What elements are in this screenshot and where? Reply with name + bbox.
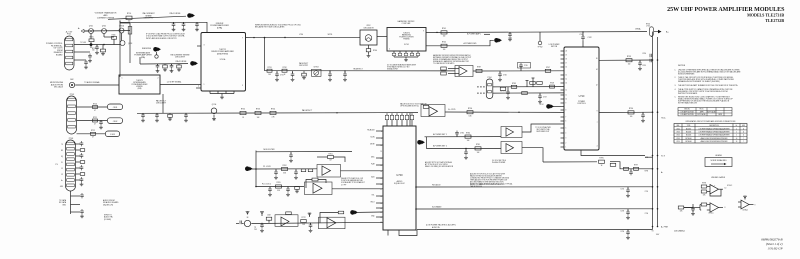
svg-text:A+: A+ <box>661 171 663 174</box>
svg-text:2 V PP: 2 V PP <box>341 184 347 186</box>
junction <box>518 112 519 113</box>
wire: filt audio long line <box>416 186 653 188</box>
svg-text:W702: W702 <box>367 25 371 27</box>
IPA hybrid block <box>119 75 160 94</box>
junction dots bottom <box>415 186 417 188</box>
svg-text:R732: R732 <box>282 67 286 69</box>
feedback R767 <box>312 178 318 181</box>
svg-text:5: 5 <box>389 49 390 51</box>
op-amp U703-b <box>313 183 322 193</box>
wire: squelch long line <box>416 208 653 210</box>
svg-text:PA DETECT: PA DETECT <box>302 109 313 112</box>
svg-text:3/31/82-UP: 3/31/82-UP <box>768 246 783 250</box>
dashes into connector <box>477 86 479 88</box>
svg-text:5.6K: 5.6K <box>468 116 471 118</box>
capacitor C747 <box>539 93 541 95</box>
harmonic filter block <box>387 28 426 52</box>
svg-text:RX: RX <box>61 150 63 152</box>
svg-text:.01: .01 <box>182 30 184 32</box>
wire fwd <box>426 45 484 47</box>
op-amp U702-a box <box>421 105 445 117</box>
svg-text:TX A+: TX A+ <box>661 116 666 119</box>
resistor R761 feedback <box>328 156 334 159</box>
svg-text:11: 11 <box>380 151 382 153</box>
off-sheet arrow RX audio <box>350 210 355 215</box>
svg-text:5: 5 <box>242 85 243 87</box>
svg-text:R720: R720 <box>93 103 97 105</box>
svg-text:C747: C747 <box>543 97 547 99</box>
svg-text:C746: C746 <box>503 75 507 77</box>
svg-text:16: 16 <box>596 58 598 60</box>
feedback loop wire <box>317 156 328 158</box>
capacitor C791 <box>642 112 644 114</box>
resistor R705 <box>89 39 94 42</box>
svg-text:C703: C703 <box>620 211 624 213</box>
resistor R799 <box>701 190 707 193</box>
svg-text:F2: F2 <box>61 174 63 176</box>
box R790 <box>522 92 528 95</box>
resistor R766 <box>295 187 300 190</box>
svg-text:1K: 1K <box>242 117 244 119</box>
speaker source circle <box>244 220 250 226</box>
ground C729 <box>81 215 83 217</box>
svg-text:R9 25: R9 25 <box>700 109 704 111</box>
capacitor C763 <box>269 187 271 189</box>
capacitor C702 stub <box>627 187 629 189</box>
resistor R787 <box>476 69 482 72</box>
svg-text:1-3 W RF SIGNAL: 1-3 W RF SIGNAL <box>167 81 182 84</box>
wire: A POWER SET 1 <box>425 136 502 138</box>
svg-text:R722: R722 <box>91 130 95 132</box>
svg-text:R793: R793 <box>627 56 631 58</box>
svg-text:P702: P702 <box>70 94 74 96</box>
resistor R785 <box>441 67 447 70</box>
svg-text:GND: GND <box>742 125 745 127</box>
svg-text:21: 21 <box>380 212 382 214</box>
capacitor C703 stub <box>627 209 629 211</box>
resistor R797 <box>634 167 639 170</box>
capacitor C720 <box>100 121 102 123</box>
resistor R796 <box>624 167 629 170</box>
svg-text:CIRCUITRY: CIRCUITRY <box>156 103 167 105</box>
svg-text:(DPA) HYBRID: (DPA) HYBRID <box>217 52 229 55</box>
wire from connector y93 <box>493 92 564 94</box>
capacitor C780 <box>456 135 458 137</box>
resistor R716 <box>177 65 182 68</box>
svg-text:R754: R754 <box>271 109 275 111</box>
microphone jack J702 <box>69 82 74 87</box>
svg-text:CIRCUITRY: CIRCUITRY <box>143 18 154 20</box>
svg-text:R748: R748 <box>550 83 554 85</box>
resistor R720 <box>93 106 98 109</box>
svg-text:C700: C700 <box>642 53 646 55</box>
bus wire A+ right <box>657 37 659 227</box>
wire: IPA bottom to PA detect <box>162 94 164 113</box>
resistor R731 <box>267 69 272 72</box>
resistor R765 <box>276 185 282 188</box>
op-amp U707 <box>459 67 467 76</box>
svg-text:10K: 10K <box>213 120 216 122</box>
wires into U707 <box>448 68 459 70</box>
svg-text:R789: R789 <box>512 83 516 85</box>
resistor R793 <box>626 59 632 62</box>
svg-text:SQUELCH IC: SQUELCH IC <box>394 183 406 185</box>
diode CR702 <box>610 163 616 166</box>
svg-text:C780: C780 <box>460 133 464 135</box>
wire: PL lock 2 line <box>256 185 304 187</box>
svg-text:JMPR: JMPR <box>700 111 704 113</box>
resistor R721 <box>93 119 98 122</box>
svg-text:JMPR: JMPR <box>718 114 722 116</box>
svg-text:U704: U704 <box>676 135 680 137</box>
svg-text:SET RB: SET RB <box>551 46 558 48</box>
resistor R706 <box>112 36 117 39</box>
op-amp U708 <box>741 200 749 209</box>
capacitor C792 <box>630 169 632 171</box>
svg-text:(DPA): (DPA) <box>217 27 223 30</box>
test point TP701 <box>155 55 158 58</box>
svg-text:1K: 1K <box>601 165 603 167</box>
svg-text:MC3403: MC3403 <box>686 135 691 137</box>
svg-text:33K: 33K <box>283 173 286 175</box>
wire IC top to opamp <box>409 113 411 126</box>
svg-text:68P81082E76-B: 68P81082E76-B <box>761 237 782 241</box>
svg-text:47: 47 <box>92 137 94 139</box>
svg-text:IN MICROHENRIES: IN MICROHENRIES <box>678 74 695 76</box>
junction dots on A+ line <box>436 32 437 33</box>
off-sheet arrow A POWER <box>494 38 499 43</box>
svg-text:B+ CNTL: B+ CNTL <box>448 109 455 111</box>
wire: sense vertical <box>129 23 131 63</box>
wire: A POWER SET 2 <box>427 147 502 149</box>
svg-text:R794: R794 <box>629 108 633 110</box>
svg-text:47: 47 <box>94 123 96 125</box>
capacitor C790 <box>639 60 641 62</box>
op-amp U705 box <box>420 103 422 105</box>
capacitor C753 <box>185 113 187 115</box>
off-sheet arrow PL LOCK input <box>245 166 250 171</box>
svg-text:C744: C744 <box>508 38 512 40</box>
resistor R762 <box>282 167 288 170</box>
resistor R794 <box>628 111 634 114</box>
svg-text:MIC JACK: MIC JACK <box>54 86 64 89</box>
svg-text:CIRCUITRY: CIRCUITRY <box>175 57 186 59</box>
PA control hybrid block U710 <box>564 47 599 150</box>
svg-text:IPA 1 DRIVE: IPA 1 DRIVE <box>170 12 181 15</box>
wire from connector to limiter <box>74 44 95 46</box>
capacitor C733 <box>329 71 331 73</box>
svg-text:U701 A: U701 A <box>220 58 226 61</box>
svg-text:100K: 100K <box>267 215 271 217</box>
resistor R772 <box>301 220 307 223</box>
diode CR704 <box>119 28 124 33</box>
svg-text:100: 100 <box>92 50 95 52</box>
svg-text:.01: .01 <box>196 30 198 32</box>
wire: PL lock line <box>252 168 317 170</box>
wire blob to IC <box>358 211 384 213</box>
junction <box>329 70 330 71</box>
svg-text:1: 1 <box>122 78 123 80</box>
svg-text:2: 2 <box>158 78 159 80</box>
box note above <box>518 63 531 69</box>
svg-text:3: 3 <box>204 45 205 47</box>
power stub for U708 <box>744 196 746 200</box>
svg-text:J 801: J 801 <box>113 107 118 109</box>
svg-text:MUTE: MUTE <box>370 143 374 145</box>
T stub 1 <box>526 81 528 87</box>
svg-text:J 802: J 802 <box>113 121 118 123</box>
svg-text:U703: U703 <box>676 132 680 134</box>
svg-text:TP: TP <box>254 227 256 229</box>
capacitor C761 <box>275 169 277 171</box>
junction <box>465 148 467 150</box>
svg-text:FL701: FL701 <box>404 44 409 46</box>
wire: current sense line to IPA 1 DRIVE <box>108 16 186 19</box>
capacitor C741 <box>509 32 511 34</box>
svg-text:R752: R752 <box>241 109 245 111</box>
wire: IPA 2 drive line <box>140 63 188 65</box>
capacitor C716 <box>163 65 168 68</box>
svg-text:703: 703 <box>254 229 257 231</box>
svg-text:TP702: TP702 <box>538 47 543 49</box>
svg-text:R772: R772 <box>301 217 305 219</box>
svg-text:R742: R742 <box>442 41 446 43</box>
svg-text:100: 100 <box>128 21 131 23</box>
svg-text:L750: L750 <box>646 26 650 28</box>
op-amp U703-a <box>322 166 331 175</box>
left input parts <box>678 206 684 209</box>
svg-text:A POWER AMPL: A POWER AMPL <box>467 32 481 35</box>
resistor R780 <box>465 135 471 138</box>
svg-text:7: 7 <box>242 38 243 40</box>
feedback R773 <box>338 211 344 214</box>
wire: A+ line filter to right <box>426 31 647 34</box>
wire: audio line <box>251 222 383 223</box>
transistor Q703 <box>120 41 125 46</box>
svg-text:R795: R795 <box>599 158 603 160</box>
wire opamp out to PA ctrl block <box>445 111 564 113</box>
svg-text:C745: C745 <box>524 65 528 67</box>
svg-text:10: 10 <box>725 188 727 190</box>
op-amp U706-a <box>506 128 514 136</box>
transistor Q702 <box>102 29 107 34</box>
capacitor C732 <box>292 71 294 73</box>
svg-text:P703: P703 <box>69 138 73 140</box>
capacitor C701 <box>649 59 651 63</box>
capacitor C746 <box>499 71 501 73</box>
resistor R770 <box>266 217 272 220</box>
svg-text:HYBRID: HYBRID <box>403 39 410 41</box>
wire detector to filter <box>377 36 387 38</box>
svg-text:Q704: Q704 <box>212 104 216 106</box>
op-amp U704-a <box>281 217 289 226</box>
antenna sym 3 <box>309 213 311 217</box>
resistor R709 vertical <box>128 27 132 35</box>
capacitor C781 <box>465 149 467 152</box>
capacitor C706 <box>84 61 88 63</box>
wire: block out y60 <box>599 59 653 61</box>
svg-text:.01: .01 <box>172 30 174 32</box>
svg-text:MODEL: MODEL <box>684 109 690 111</box>
wire: mod filter line <box>256 151 352 153</box>
svg-text:10K: 10K <box>467 140 470 142</box>
svg-text:DPA A+: DPA A+ <box>635 28 641 31</box>
capacitor C711 <box>183 22 185 24</box>
svg-text:R798: R798 <box>645 171 649 173</box>
DPA bottom pin ticks <box>209 91 211 94</box>
stub wires into PA control block <box>561 50 565 52</box>
svg-text:W701: W701 <box>328 34 333 36</box>
resistor R753 <box>255 111 261 114</box>
small jumper table <box>678 108 732 116</box>
svg-text:9: 9 <box>423 31 424 33</box>
svg-text:PA DETECT: PA DETECT <box>353 67 362 70</box>
svg-text:TYPE: TYPE <box>687 125 691 127</box>
junction <box>253 37 254 38</box>
svg-text:100: 100 <box>628 64 631 66</box>
feedback wire U703c <box>710 190 721 197</box>
svg-text:R706: R706 <box>112 34 116 36</box>
svg-text:33K: 33K <box>277 190 280 192</box>
svg-text:PL LOCK 2: PL LOCK 2 <box>262 184 271 186</box>
wire to option box 2 <box>77 120 108 122</box>
svg-text:(SQUELCH): (SQUELCH) <box>103 204 113 206</box>
svg-text:A+ PWR: A+ PWR <box>661 226 669 229</box>
svg-text:MC3357: MC3357 <box>686 128 691 130</box>
svg-text:REF: REF <box>677 125 680 127</box>
wire: DPA sample drop <box>264 38 266 71</box>
wire: tx audio to IPA <box>75 84 119 86</box>
off-sheet arrow IPA 2 DRIVE <box>190 61 195 66</box>
resistor R795 <box>599 160 605 163</box>
off-sheet arrow IPA DRIVE <box>153 47 158 52</box>
strip3 stub wires and caps <box>76 143 81 145</box>
ground stub <box>692 210 694 212</box>
svg-text:THE MOTOROLA PART NUMBER FOR T: THE MOTOROLA PART NUMBER FOR THE CIRCULA… <box>678 84 738 87</box>
capacitor C712 <box>196 22 198 24</box>
svg-text:F1: F1 <box>61 168 63 170</box>
antenna sym 1 <box>247 212 249 215</box>
svg-text:14: 14 <box>380 171 382 173</box>
svg-text:.01: .01 <box>170 72 172 74</box>
bus top entry <box>652 32 654 37</box>
op-amp U703-a box <box>317 165 341 178</box>
svg-text:10K: 10K <box>302 224 305 226</box>
svg-text:C742: C742 <box>588 37 592 39</box>
svg-text:B+: B+ <box>736 125 738 127</box>
svg-text:R710: R710 <box>127 13 131 15</box>
wire: PA detect sample chain <box>265 70 456 72</box>
svg-text:C705: C705 <box>645 191 649 193</box>
capacitor C760 <box>290 152 292 154</box>
capacitor C729 <box>80 210 84 212</box>
directional detector block <box>360 30 377 45</box>
svg-text:TX 9.6V: TX 9.6V <box>80 42 87 44</box>
svg-text:U704-C: U704-C <box>708 213 714 215</box>
DPA hybrid block U701 <box>201 33 246 92</box>
svg-text:MC14066: MC14066 <box>685 138 691 140</box>
svg-text:C702: C702 <box>620 189 624 191</box>
resistor R748 <box>550 85 555 88</box>
svg-text:100: 100 <box>443 49 446 51</box>
op-amp U704-a box <box>275 215 298 227</box>
wire: U703-b out to audio IC <box>332 188 383 190</box>
resistor R722 <box>91 132 96 135</box>
op-amp U702-a <box>429 107 438 116</box>
svg-text:17: 17 <box>380 189 382 191</box>
test point TP702 <box>538 41 542 45</box>
option plug box 2 <box>108 118 123 124</box>
svg-text:R741: R741 <box>442 28 446 30</box>
wires of limiter cluster <box>90 34 92 39</box>
svg-text:C706: C706 <box>645 213 649 215</box>
capacitor C700 <box>649 54 651 58</box>
capacitor C717 <box>171 64 173 66</box>
svg-text:(Sheet 1 of 2): (Sheet 1 of 2) <box>766 242 783 246</box>
capacitor C751 <box>142 113 144 115</box>
blob small junction <box>90 43 93 46</box>
svg-text:TX: TX <box>61 144 63 146</box>
wire: op-amp out right <box>341 170 384 172</box>
option plug box 1 <box>108 104 123 110</box>
capacitor C715 <box>157 64 159 66</box>
svg-text:L701: L701 <box>579 34 583 36</box>
op-amp U704-c <box>710 203 719 212</box>
resistor R755 <box>423 105 429 108</box>
svg-text:INTEGRATED CIRCUIT POWER AN: INTEGRATED CIRCUIT POWER AND GROUND CONN… <box>686 120 737 123</box>
wire: main vertical to IPA <box>119 21 121 78</box>
choke L700 <box>650 27 654 36</box>
svg-text:IPA DRIVE: IPA DRIVE <box>142 47 152 50</box>
off-sheet arrow IPA 1 DRIVE <box>187 13 192 18</box>
wire from connector y87 <box>493 86 564 88</box>
svg-text:IPA 2 DRIVE: IPA 2 DRIVE <box>176 60 187 63</box>
svg-text:R740: R740 <box>373 50 377 52</box>
audio/squelch IC U700 <box>383 126 416 230</box>
junction <box>103 44 105 46</box>
svg-text:NOTE: VOLTAGE AT R605 IN RCVR: NOTE: VOLTAGE AT R605 IN RCVR 0.8 V DC T… <box>470 183 512 186</box>
svg-text:23: 23 <box>380 222 382 224</box>
resistor R754 <box>270 111 276 114</box>
svg-text:A POWER SET 1: A POWER SET 1 <box>433 133 447 136</box>
svg-text:47: 47 <box>94 110 96 112</box>
transistor Q701 <box>89 29 94 34</box>
svg-text:10K: 10K <box>477 152 480 154</box>
block bottom exit <box>543 161 597 163</box>
box R792 <box>537 82 543 85</box>
resistor R747 <box>545 69 551 72</box>
svg-text:GND: GND <box>60 186 63 188</box>
resistor R763 <box>301 169 306 172</box>
double stub at block bottom <box>645 156 653 158</box>
capacitor C710 <box>173 22 175 24</box>
wire to option box 1 <box>77 106 108 108</box>
wire block bottom to bus <box>581 150 645 156</box>
svg-text:UNUSED GATES: UNUSED GATES <box>711 176 726 179</box>
wire: block out y112.5 <box>599 111 653 113</box>
svg-text:R761: R761 <box>328 153 332 155</box>
svg-text:C701: C701 <box>642 65 646 67</box>
svg-text:U706: U706 <box>676 138 680 140</box>
svg-text:TLE2732B: TLE2732B <box>765 18 784 23</box>
IC top resistor row <box>386 120 388 126</box>
svg-text:100: 100 <box>268 74 271 76</box>
svg-text:R721: R721 <box>93 117 97 119</box>
svg-text:R780: R780 <box>466 132 470 134</box>
capacitor C734 <box>344 71 346 73</box>
svg-text:OPTION (SEE NOTE 4): OPTION (SEE NOTE 4) <box>400 106 419 108</box>
resistor R708 <box>101 49 106 52</box>
